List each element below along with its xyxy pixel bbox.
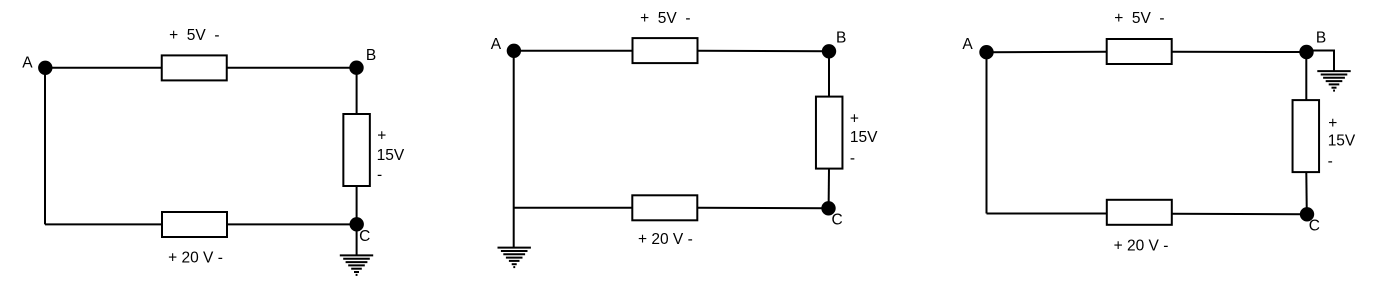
resistor R9 (+ 20 V -) — [1107, 200, 1172, 225]
svg-text:+: + — [850, 110, 859, 127]
svg-text:15V: 15V — [1328, 133, 1356, 150]
wire R4 to B (top right) — [698, 50, 830, 52]
svg-text:+ 20 V -: + 20 V - — [638, 231, 693, 248]
wire C to ground — [356, 224, 358, 255]
svg-text:B: B — [1316, 29, 1326, 46]
wire R6 to C (bottom right) — [697, 207, 828, 209]
svg-text:15V: 15V — [850, 129, 878, 146]
node A — [39, 62, 51, 74]
label +15V- — [850, 110, 878, 167]
svg-text:B: B — [836, 30, 846, 47]
svg-text:C: C — [1309, 218, 1320, 235]
wire left side (A down to bottom) — [986, 52, 988, 213]
wire B down to R5 — [828, 51, 830, 96]
svg-text:C: C — [831, 212, 842, 229]
wire B down to R2 — [356, 68, 358, 114]
svg-text:-: - — [377, 166, 382, 183]
node C — [351, 218, 363, 230]
resistor R5 (15V) — [816, 97, 843, 169]
svg-text:+ 5V -: + 5V - — [640, 10, 690, 27]
wire left side (A down to ground) — [513, 51, 515, 248]
svg-text:C: C — [359, 228, 370, 245]
wire B to ground (L shape) — [1312, 51, 1334, 72]
svg-text:A: A — [491, 36, 502, 53]
wire R7 to B (top right) — [1172, 51, 1307, 53]
resistor R6 (+ 20 V -) — [632, 195, 697, 220]
wire R3 to C (bottom right) — [227, 223, 357, 225]
svg-text:15V: 15V — [377, 147, 405, 164]
wire R5 to C — [828, 169, 830, 209]
wire A to R7 (top left) — [987, 51, 1107, 53]
wire bottom left (junction to R6) — [514, 207, 633, 209]
wire R8 to C — [1305, 172, 1308, 214]
svg-text:+ 20 V -: + 20 V - — [168, 249, 223, 266]
svg-text:A: A — [962, 36, 973, 53]
svg-text:+ 5V -: + 5V - — [169, 27, 219, 44]
ground (right of B) — [1317, 71, 1350, 91]
wire R1 to B (top right) — [227, 67, 357, 69]
label +15V- — [377, 127, 405, 183]
node C — [822, 202, 834, 214]
resistor R4 (+ 5V -) — [633, 38, 698, 63]
label +15V- — [1328, 115, 1356, 170]
resistor R2 (15V) — [343, 114, 370, 186]
svg-text:-: - — [850, 150, 855, 167]
svg-text:+: + — [1328, 115, 1337, 132]
node B — [1300, 46, 1312, 58]
ground (bottom left) — [498, 248, 531, 268]
node C — [1301, 208, 1313, 220]
resistor R8 (15V) — [1293, 100, 1320, 172]
wire R2 to C — [356, 186, 358, 224]
ground (below C) — [340, 255, 373, 275]
wire R9 to C (bottom right) — [1172, 213, 1307, 216]
svg-text:B: B — [366, 47, 376, 64]
node A — [508, 45, 520, 57]
node B — [823, 45, 835, 57]
svg-text:-: - — [1328, 153, 1333, 170]
resistor R1 (+ 5V -) — [162, 55, 227, 80]
svg-text:+ 5V -: + 5V - — [1114, 10, 1164, 27]
resistor R7 (+ 5V -) — [1107, 39, 1172, 64]
wire B down to R8 — [1305, 52, 1307, 100]
svg-text:+ 20 V -: + 20 V - — [1114, 238, 1169, 255]
wire A to R1 (top left) — [45, 67, 162, 69]
wire bottom left (corner to R3) — [45, 223, 162, 225]
svg-text:+: + — [377, 127, 386, 144]
svg-text:A: A — [22, 54, 33, 71]
node B — [350, 61, 362, 73]
wire left side (A down to bottom) — [44, 68, 46, 225]
wire A to R4 (top left) — [514, 50, 633, 52]
resistor R3 (+ 20 V -) — [162, 212, 227, 237]
node A — [980, 46, 992, 58]
wire bottom left (corner to R9) — [987, 213, 1107, 215]
